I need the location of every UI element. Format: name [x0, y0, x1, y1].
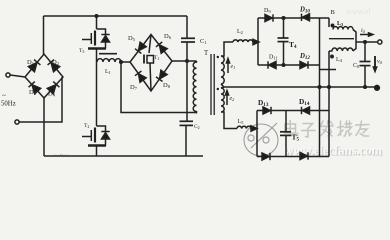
diode D7	[135, 71, 146, 82]
diode D9	[265, 14, 273, 21]
diode D8	[156, 70, 167, 81]
wire bottom secondary to L5	[221, 112, 237, 129]
svg-text:C1: C1	[200, 38, 207, 45]
svg-text:~: ~	[2, 92, 6, 100]
wire node down	[121, 62, 196, 113]
svg-text:L3: L3	[337, 21, 344, 27]
L4 left drop vertical to lower bridge	[328, 51, 330, 157]
secondary winding bottom	[221, 88, 224, 112]
output wire	[356, 41, 378, 43]
diode D13	[263, 107, 271, 114]
output terminal bottom	[375, 85, 380, 90]
diode D5	[135, 42, 146, 53]
B corner down to L3	[328, 18, 330, 27]
link bottom edge to drop	[320, 69, 337, 71]
upper bridge left side	[257, 18, 259, 65]
svg-text:L4: L4	[336, 57, 343, 63]
svg-text:C0: C0	[353, 63, 360, 69]
svg-text:www.elecfans.com: www.elecfans.com	[284, 142, 382, 157]
inductor L1	[97, 59, 121, 62]
diode D4	[47, 82, 59, 94]
bottom rail	[44, 155, 203, 157]
svg-text:D6: D6	[164, 33, 172, 40]
T5 branch	[285, 111, 287, 132]
winding dots	[217, 56, 219, 58]
top rail	[44, 15, 188, 17]
inductor L4	[332, 48, 353, 51]
svg-text:D1: D1	[27, 59, 34, 66]
secondary winding top	[221, 56, 224, 84]
T4 branch	[283, 18, 285, 38]
svg-text:T2: T2	[84, 123, 89, 129]
lower bridge bottom edge	[257, 156, 329, 158]
wire bridge bottom down	[43, 98, 45, 156]
wire L2 to bridge with arrow	[253, 41, 255, 43]
capacitor C2	[180, 120, 194, 122]
wire L5 to lower bridge with arrow	[251, 128, 253, 130]
upper bridge bottom edge	[258, 64, 320, 66]
svg-text:e1: e1	[231, 64, 236, 70]
upper bridge right side long vertical	[319, 18, 321, 157]
watermark chinese text dian zi fa shao you (vector strokes)	[285, 121, 369, 138]
svg-text:e2: e2	[230, 96, 235, 102]
svg-text:D4: D4	[48, 91, 56, 98]
transistor T1 center	[144, 35, 154, 92]
svg-text:T3: T3	[79, 48, 84, 54]
upper bridge top edge	[258, 17, 329, 19]
diode D15	[262, 153, 270, 160]
input terminal 1	[6, 73, 10, 77]
svg-text:L2: L2	[237, 29, 243, 35]
wire top secondary to L2	[221, 42, 233, 56]
svg-text:D9: D9	[264, 8, 271, 14]
diode D12	[300, 61, 308, 68]
wire term2 to bridge right corner	[19, 77, 62, 122]
inductor L5	[237, 126, 251, 128]
wire bridge top to rail	[43, 16, 45, 54]
L3 right link	[353, 30, 356, 43]
emf arrow e2	[225, 91, 228, 106]
watermark url www.elecfans.com	[284, 142, 383, 158]
diamond edges	[130, 35, 172, 92]
svg-text:v0: v0	[377, 59, 383, 65]
watermark logo circle	[244, 123, 278, 156]
svg-text:L1: L1	[105, 69, 111, 75]
diode D2	[48, 60, 60, 72]
wire T3 source down to T2 drain	[96, 49, 98, 127]
inductor L1 core bar	[99, 53, 117, 55]
emf arrow e1	[226, 59, 229, 74]
wire diamond right to primary	[172, 60, 197, 62]
svg-text:T1: T1	[154, 55, 159, 61]
svg-text:D8: D8	[163, 82, 171, 89]
wire term1 to bridge left corner	[10, 75, 25, 77]
mosfet T3	[82, 29, 110, 49]
C0 branch	[364, 42, 366, 61]
svg-text:D3: D3	[29, 89, 37, 96]
mosfet T3 drain	[96, 16, 98, 29]
mosfet T2 drain is the long vertical above	[82, 126, 110, 156]
svg-text:50Hz: 50Hz	[1, 101, 16, 108]
wire L1 to diamond left	[121, 61, 130, 63]
diode D6	[156, 42, 167, 53]
svg-text:D2: D2	[52, 59, 59, 66]
lower bridge top edge	[257, 110, 329, 112]
diode D11	[268, 61, 276, 68]
AC bridge edges	[25, 54, 63, 98]
diode D10	[302, 14, 310, 21]
svg-text:D11: D11	[269, 55, 278, 61]
diode D3	[29, 82, 41, 94]
v0 arrow	[374, 56, 376, 68]
lower bridge left side	[256, 111, 258, 157]
svg-text:B: B	[331, 9, 336, 16]
svg-text:D5: D5	[128, 35, 136, 42]
inductor L3	[333, 27, 353, 30]
diode D16	[300, 152, 308, 159]
svg-text:L5: L5	[238, 119, 245, 125]
diode D1	[28, 60, 40, 72]
L3 L4 core bar	[329, 38, 354, 40]
i0 arrow	[360, 34, 369, 36]
diode D14	[302, 107, 310, 114]
svg-text:C2: C2	[194, 124, 200, 130]
capacitor C1	[186, 16, 188, 38]
junction dots on common line	[318, 86, 321, 89]
center tap wire	[221, 84, 377, 87]
svg-text:D7: D7	[130, 84, 138, 91]
transformer core	[210, 54, 212, 115]
L4 right link	[353, 42, 356, 51]
svg-text:www.el: www.el	[346, 7, 371, 16]
input terminal 2	[15, 120, 19, 124]
inductor L2	[233, 40, 253, 42]
transformer primary	[193, 61, 196, 113]
